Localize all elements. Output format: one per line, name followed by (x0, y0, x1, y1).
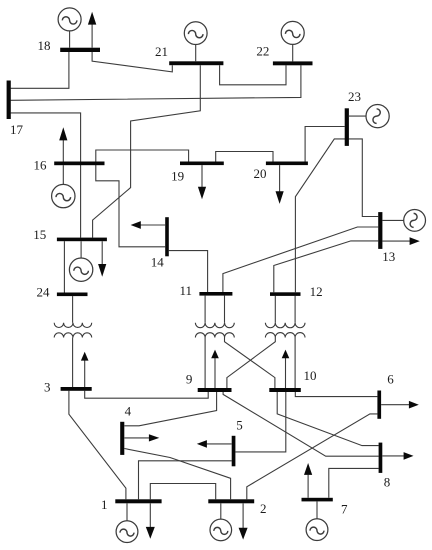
bus 12 (270, 292, 301, 296)
svg-text:20: 20 (254, 166, 267, 181)
bus 6 (377, 391, 381, 419)
svg-text:12: 12 (310, 284, 323, 299)
bus 10 (269, 388, 301, 392)
svg-text:3: 3 (44, 379, 51, 394)
wire 11-14 (169, 251, 208, 292)
wire 19-20 (216, 152, 273, 162)
svg-text:11: 11 (180, 283, 193, 298)
bus 11 (199, 292, 232, 296)
bus 4 (120, 422, 124, 455)
wire 18-21 (92, 52, 172, 72)
wire 1-3 (69, 391, 126, 500)
bus 1 (115, 499, 161, 503)
bus 23 (345, 108, 349, 146)
bus 20 (266, 162, 308, 166)
svg-text:16: 16 (34, 157, 48, 172)
wire 15-24 (63, 241, 65, 292)
bus 9 (198, 388, 232, 392)
wire 21-22 (220, 65, 286, 85)
svg-text:5: 5 (236, 418, 243, 433)
transformer T1 (24-3) (54, 323, 92, 338)
wire 24 to transformer T1 (72, 296, 74, 323)
generator G18 (58, 8, 81, 48)
load arrow bus 7 (304, 463, 312, 498)
wire transformer T3 to bus 9 (227, 338, 275, 389)
generator G7 (306, 501, 328, 540)
wire bus 12 to transformer T3 (275, 296, 295, 323)
load arrow bus 8 (382, 452, 413, 460)
transformer T2 (11 to 9/10) (195, 323, 234, 338)
wire 7-8 (329, 468, 379, 497)
svg-text:1: 1 (101, 497, 108, 512)
svg-text:10: 10 (304, 368, 317, 383)
load arrow bus 15 (98, 241, 106, 277)
generator G1 (116, 503, 138, 542)
load arrow bus 19 (198, 165, 206, 199)
generator G22 (281, 21, 304, 61)
wire 6-10 (295, 392, 377, 397)
wire 12-23 (295, 139, 346, 292)
wire 16-19 (96, 150, 189, 162)
load arrow bus 6 (381, 401, 419, 409)
load arrow bus 4 (124, 434, 159, 441)
bus 8 (379, 443, 383, 473)
wire 13-23 (347, 139, 379, 217)
load arrow bus 1 (146, 503, 155, 539)
load arrow bus 20 (276, 165, 284, 204)
bus 13 (378, 212, 382, 249)
generator G16 (52, 165, 75, 208)
bus 15 (57, 238, 107, 242)
wire 8-9 (223, 392, 379, 456)
bus 2 (208, 499, 254, 503)
wire 8-10 (277, 392, 378, 446)
transformer T3 (12 to 9/10) (265, 323, 305, 338)
wire 5-10 (235, 392, 285, 452)
svg-text:18: 18 (38, 38, 51, 53)
generator G21 (184, 22, 207, 62)
wire transformer T2 to bus 9 (204, 338, 206, 389)
generator G15 (69, 241, 92, 281)
wire 14-16 (96, 165, 165, 247)
wire 15-21 (93, 65, 201, 237)
load arrow bus 3 (81, 352, 89, 387)
wire 20-23 (305, 127, 345, 162)
load arrow bus 16 (59, 127, 67, 161)
wire bus 11 to transformer T2 (205, 296, 224, 323)
svg-text:13: 13 (382, 249, 395, 264)
svg-text:15: 15 (33, 227, 46, 242)
svg-text:24: 24 (37, 284, 51, 299)
svg-text:22: 22 (256, 44, 269, 59)
svg-text:2: 2 (260, 501, 267, 516)
wire 1-5 (139, 461, 232, 500)
svg-text:19: 19 (171, 169, 184, 184)
bus 24 (57, 293, 88, 297)
generator G23 (349, 105, 390, 128)
bus 16 (54, 162, 104, 166)
wire 16-17 and 15-16 (11, 113, 81, 238)
svg-text:4: 4 (125, 403, 132, 418)
wire 17-22 (11, 65, 301, 100)
bus 19 (180, 162, 224, 166)
wire transformer T3 to bus 10 (294, 338, 296, 389)
wire 3-9 (85, 391, 209, 398)
svg-text:17: 17 (10, 122, 24, 137)
bus 18 (60, 48, 100, 52)
load arrow bus 14 (131, 221, 166, 229)
svg-text:7: 7 (341, 501, 348, 516)
bus 21 (169, 61, 223, 65)
bus 5 (232, 436, 236, 467)
load arrow bus 10 (282, 350, 290, 388)
svg-text:8: 8 (384, 474, 391, 489)
wire transformer T2 to bus 10 (225, 338, 275, 389)
load arrow bus 18 (88, 12, 96, 48)
wire 2-6 (247, 414, 378, 499)
load arrow bus 9 (211, 350, 219, 388)
svg-text:23: 23 (348, 89, 361, 104)
bus 14 (165, 217, 169, 256)
wire 17-18 (11, 52, 69, 89)
wire 4-9 (124, 392, 216, 426)
svg-text:14: 14 (151, 255, 165, 270)
bus 17 (7, 81, 11, 120)
generator G13 (382, 210, 425, 232)
wire transformer T1 to bus 3 (72, 338, 74, 388)
generator G2 (210, 503, 232, 541)
bus 22 (273, 61, 313, 65)
load arrow bus 5 (197, 440, 232, 448)
svg-text:21: 21 (155, 44, 168, 59)
wire 11-13 (223, 227, 378, 292)
load arrow bus 2 (239, 503, 248, 539)
svg-text:6: 6 (387, 372, 394, 387)
load arrow bus 13 (382, 237, 419, 245)
wire 1-2 (150, 484, 215, 500)
wire 2-4 (124, 449, 230, 500)
bus 3 (61, 387, 92, 391)
svg-text:9: 9 (186, 372, 193, 387)
bus 7 (302, 498, 333, 502)
wire 12-13 (274, 241, 378, 292)
